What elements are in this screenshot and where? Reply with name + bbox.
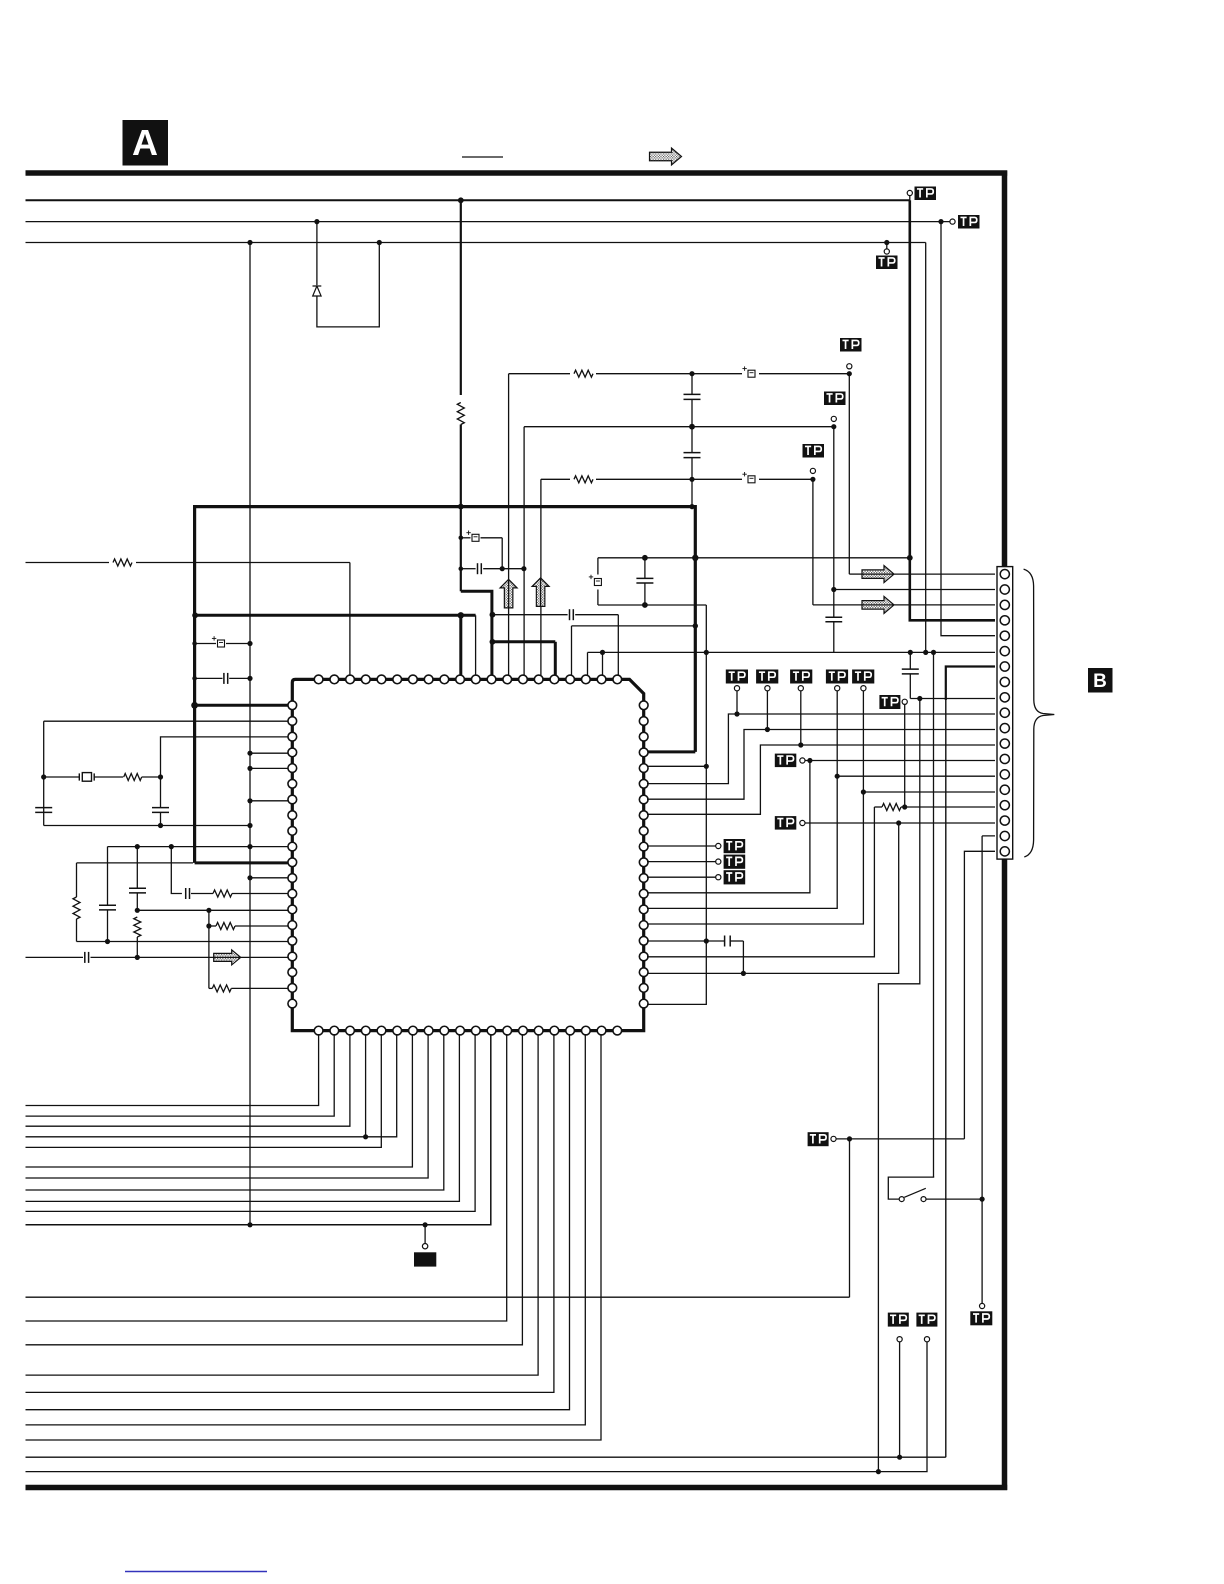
wire input y562 bbox=[26, 562, 350, 564]
wire diode loop bbox=[317, 243, 379, 327]
wire y910 to pin L14 bbox=[137, 909, 289, 911]
wire ground net y1224 bbox=[26, 1034, 491, 1225]
test point TP9 bbox=[902, 699, 907, 704]
wire x982 net bbox=[982, 836, 995, 1199]
wire net y1297 bbox=[26, 1296, 850, 1298]
wire R6 net bbox=[647, 714, 995, 784]
capacitor C18 bbox=[636, 577, 653, 579]
test point TP2 top bbox=[950, 219, 955, 224]
capacitor C9 wire bbox=[195, 677, 222, 679]
junction y557/x909 bbox=[907, 555, 913, 561]
junction y652/x925 bbox=[923, 650, 928, 655]
wire net3 y479 bbox=[541, 478, 813, 480]
power bus box left bbox=[193, 505, 196, 863]
junction x250/y678 bbox=[247, 676, 252, 681]
crystal X1 bbox=[79, 773, 94, 782]
capacitor C10 wire bbox=[160, 777, 162, 808]
label TP row 4 bbox=[826, 670, 848, 684]
wire net1 drop x508 bbox=[508, 374, 510, 676]
junction x250/L12 bbox=[247, 875, 252, 880]
wire TP11 net bbox=[836, 1138, 964, 1140]
wire pin T17 net bbox=[572, 626, 696, 676]
wire y242 bbox=[26, 242, 926, 244]
junction B4 bbox=[363, 1134, 368, 1139]
resistor R9 bbox=[216, 923, 235, 930]
wire bus jog bbox=[461, 591, 492, 676]
wire cap910 bbox=[909, 652, 911, 669]
resistor R10 bbox=[212, 985, 231, 992]
capacitor C10 bbox=[152, 807, 169, 809]
wire through arrow up 1 bbox=[508, 581, 510, 609]
junction y652/x910 bbox=[908, 650, 913, 655]
polarized capacitor C3 bbox=[742, 368, 759, 379]
test point TP13 bbox=[897, 1337, 902, 1342]
label TP6 bbox=[803, 444, 825, 458]
wire pin L12 stub bbox=[250, 877, 289, 879]
junction x160/y777 bbox=[158, 774, 163, 779]
label TP9 bbox=[879, 695, 900, 709]
wire arrow1 to pin bbox=[849, 573, 864, 575]
wire TP4 net to connector bbox=[848, 374, 850, 574]
IC U1 top pins bbox=[314, 675, 621, 684]
wire C19 drop bbox=[742, 941, 744, 973]
junction x160/y825 bbox=[158, 823, 163, 828]
wire bottom pin stair 13 bbox=[26, 1034, 507, 1321]
wire bottom pin stair 18 bbox=[26, 1034, 586, 1425]
resistor R5 bbox=[124, 774, 142, 781]
label TP8 bbox=[775, 816, 797, 830]
wire x964 net bbox=[964, 851, 995, 1139]
signal arrow right 1 bbox=[862, 566, 894, 583]
capacitor C15 bbox=[84, 952, 86, 963]
border frame right bbox=[1002, 171, 1008, 1491]
capacitor C12 bbox=[99, 904, 116, 906]
junction x250/y1224 bbox=[247, 1222, 252, 1227]
wire y846 to pin L10 bbox=[108, 846, 290, 848]
label TP7 bbox=[775, 754, 797, 768]
junction boxR/y625 bbox=[693, 623, 698, 628]
wire x849 drop bbox=[849, 1139, 851, 1297]
diode D1 bbox=[313, 286, 322, 296]
svg-text:B: B bbox=[1093, 671, 1107, 692]
wire x137 tail bbox=[136, 937, 138, 957]
reference line blue bbox=[125, 1571, 267, 1573]
wire pin R5 bbox=[647, 765, 706, 767]
label TP16 bbox=[724, 870, 746, 884]
test point TP11 bbox=[831, 1136, 836, 1141]
test point TP6 bbox=[810, 468, 815, 473]
polarized capacitor C1 bbox=[466, 531, 479, 542]
wire TP5 net drop bbox=[833, 427, 835, 590]
wire bottom pin stair 14 bbox=[26, 1034, 523, 1345]
wire R8 net bbox=[647, 745, 995, 814]
wire pin R12 to TP bbox=[647, 876, 716, 878]
wire R17 net bbox=[647, 807, 874, 957]
wire bottom pin fan 1 bbox=[26, 1034, 319, 1106]
junction x250/y643 bbox=[247, 641, 252, 646]
wire net1 y373 bbox=[509, 373, 850, 375]
junction y760/x810 bbox=[807, 758, 812, 763]
junction net3/x813 bbox=[810, 477, 815, 482]
capacitor C11 bbox=[35, 807, 52, 809]
junction net1/x692 bbox=[689, 371, 694, 376]
signal arrow right 3 bbox=[214, 950, 241, 965]
wire through arrow up 2 bbox=[540, 579, 542, 607]
power arrow up 2 bbox=[532, 578, 549, 607]
label TP row 5 bbox=[852, 670, 874, 684]
wire through arrow right 2 bbox=[863, 604, 893, 606]
wire pin T20 drop bbox=[617, 615, 619, 676]
label TP14 bbox=[724, 839, 746, 853]
ground terminal circle bbox=[422, 1244, 427, 1249]
junction y200/x461 bbox=[458, 197, 464, 203]
capacitor C2 bbox=[477, 563, 479, 574]
junction y652/T19 bbox=[600, 650, 605, 655]
junction x208/y926 bbox=[206, 923, 211, 928]
wire net2 drop x524 bbox=[523, 427, 525, 676]
wire loop bottom bbox=[598, 604, 706, 606]
junction x137/y957 bbox=[135, 955, 140, 960]
wire net y1457 bbox=[26, 1456, 946, 1458]
wire bus x461 lower bbox=[460, 425, 462, 592]
test point TP4 bbox=[847, 364, 852, 369]
junction TP11 bbox=[847, 1136, 852, 1141]
junction y745/TP bbox=[798, 742, 803, 747]
wire diode drop bbox=[316, 222, 318, 285]
junction x706/R16 bbox=[704, 938, 709, 943]
wire thick y641 branch bbox=[492, 640, 555, 643]
junction x692/boxtop bbox=[689, 504, 694, 509]
wire pin L11 thick bbox=[195, 861, 289, 864]
wire bottom pin fan 8 bbox=[26, 1034, 444, 1190]
wire y926 to pin L15 bbox=[209, 925, 216, 927]
wire net2 y426 bbox=[524, 426, 834, 428]
wire c14-r8 bbox=[191, 893, 213, 895]
test point TP row 2 bbox=[765, 686, 770, 691]
wire cap drop x107 bbox=[107, 847, 109, 906]
junction x878/y1471 bbox=[876, 1469, 881, 1474]
wire TP6 net drop bbox=[812, 479, 814, 605]
test point TP row 5 bbox=[861, 686, 866, 691]
power bus box right bbox=[694, 505, 697, 752]
capacitor C13 bbox=[129, 887, 146, 889]
junction x834/y589 bbox=[831, 587, 836, 592]
wire through arrow right 1 bbox=[863, 573, 893, 575]
junction x492/y614 bbox=[490, 612, 496, 618]
junction y729/TP bbox=[765, 727, 770, 732]
resistor R1 on x461 bbox=[457, 403, 464, 425]
label TP10 bbox=[970, 1311, 992, 1325]
wire x941 net bbox=[941, 222, 995, 636]
junction y1457 bbox=[897, 1455, 902, 1460]
power bus box top bbox=[195, 505, 696, 508]
junction x706/y652 bbox=[704, 650, 709, 655]
junction x137/y910 bbox=[135, 908, 140, 913]
wire through arrow right 3 bbox=[214, 956, 240, 958]
junction y792/x863 bbox=[861, 789, 866, 794]
capacitor C19 bbox=[724, 936, 726, 947]
wire pin7 drop bbox=[945, 700, 947, 1457]
wire R18 net bbox=[647, 823, 899, 973]
wire pin T11 drop bbox=[475, 615, 477, 676]
junction y221/diode bbox=[314, 219, 319, 224]
capacitor C16 wire y614 bbox=[492, 614, 567, 616]
label TP11 bbox=[808, 1132, 829, 1146]
wire loop left bbox=[597, 558, 599, 575]
wire TP9 drop bbox=[904, 704, 906, 807]
wire R16 net bbox=[647, 940, 725, 942]
wire bottom pin fan 10 bbox=[26, 1034, 476, 1211]
wire loop top y557 bbox=[598, 557, 910, 559]
IC U1 left pins bbox=[288, 701, 297, 1008]
wire bottom pin fan 5 bbox=[26, 1034, 382, 1147]
capacitor C6 bbox=[684, 452, 701, 454]
wire pin17 feed bbox=[805, 822, 995, 824]
label TP row 2 bbox=[756, 670, 778, 684]
wire pin T16 drop bbox=[554, 642, 557, 676]
resistor R2 on net1 bbox=[570, 368, 596, 379]
wire pin L2 bbox=[44, 720, 289, 722]
wire bottom pin fan 9 bbox=[26, 1034, 460, 1201]
test point TP8 bbox=[800, 820, 805, 825]
wire x208 drop bbox=[208, 910, 210, 988]
junction net2/x692 bbox=[689, 424, 695, 430]
junction x250/L7 bbox=[247, 798, 252, 803]
wire x171 drop bbox=[171, 847, 182, 894]
section label B bbox=[1088, 668, 1113, 693]
switch SW1 right wire bbox=[926, 1198, 982, 1200]
power arrow up 1 bbox=[500, 579, 517, 608]
junction y714/TP bbox=[734, 711, 739, 716]
wire VDD top y200 bbox=[26, 199, 910, 201]
label TP12 bbox=[916, 1313, 937, 1327]
junction x461/y568 bbox=[459, 566, 464, 571]
wire x919 jog bbox=[878, 699, 919, 1472]
wire x834 cap drop bbox=[833, 590, 835, 618]
wire bottom pin fan 2 bbox=[26, 1034, 335, 1116]
wire thick pin7 elbow bbox=[946, 667, 995, 701]
wire thick x909 bbox=[910, 200, 995, 620]
resistor R4 bbox=[109, 557, 136, 568]
wire crystal left bbox=[43, 721, 45, 825]
wire res drop x76 bbox=[76, 863, 78, 897]
IC U1 body bbox=[292, 679, 643, 1030]
label TP row 3 bbox=[790, 670, 812, 684]
ground symbol bbox=[414, 1252, 436, 1266]
junction y615/x461 bbox=[458, 612, 464, 618]
wire TProw3 drop bbox=[800, 691, 802, 745]
wire R15 net bbox=[647, 691, 863, 924]
resistor R11 bbox=[882, 804, 901, 811]
wire y221 bbox=[26, 221, 950, 223]
wire net3 drop x541 bbox=[540, 479, 542, 676]
junction x250/y825 bbox=[247, 823, 252, 828]
wire bus x461 upper bbox=[460, 200, 462, 395]
wire y941 to pin L16 bbox=[77, 941, 290, 943]
junction y221/x941 bbox=[938, 219, 943, 224]
junction y568/x502 bbox=[500, 566, 505, 571]
connector CN1 pins bbox=[1000, 570, 1009, 856]
junction y776/x837 bbox=[835, 774, 840, 779]
wire pin L3 riser bbox=[161, 737, 290, 777]
connector CN1 body bbox=[997, 567, 1013, 860]
wire xtal to x160 bbox=[142, 776, 161, 778]
wire bottom pin stair 15 bbox=[26, 1034, 539, 1375]
wire net x250 bbox=[249, 243, 251, 1225]
wire y988 to pin L19 bbox=[209, 987, 212, 989]
test point TP3 stub bbox=[886, 243, 888, 250]
wire TProw2 drop bbox=[766, 691, 768, 730]
border frame bottom bbox=[26, 1485, 1008, 1491]
resistor R6 bbox=[73, 897, 80, 919]
wire bottom pin stair 17 bbox=[26, 1034, 570, 1410]
test point TP1 top bbox=[907, 190, 912, 195]
polarized capacitor C1 wire bbox=[461, 537, 471, 539]
wire pin R4 thick bbox=[647, 750, 695, 753]
IC U1 pin R20 bbox=[639, 999, 648, 1008]
wire y957 input bbox=[26, 956, 84, 958]
blank label line bbox=[462, 156, 503, 158]
junction xtal left bbox=[41, 774, 46, 779]
wire thick y615 bbox=[195, 614, 476, 617]
label TP2 bbox=[958, 215, 980, 229]
wire TProw1 drop bbox=[736, 691, 738, 714]
resistor R8 bbox=[213, 890, 232, 897]
brace B bbox=[1024, 569, 1055, 857]
wire R7 net bbox=[647, 730, 995, 800]
capacitor C14 bbox=[185, 888, 187, 899]
wire pin14 feed bbox=[837, 775, 995, 777]
switch SW1 upper wire bbox=[888, 1177, 934, 1199]
label TP5 bbox=[824, 392, 846, 406]
capacitor C9 bbox=[223, 673, 225, 684]
test point TP14 bbox=[716, 843, 721, 848]
svg-text:A: A bbox=[132, 122, 158, 163]
capacitor C5 bbox=[684, 393, 701, 395]
wire pin L4 stub bbox=[250, 752, 289, 754]
wire pin15 feed bbox=[863, 791, 995, 793]
wire to pin L13 bbox=[232, 893, 289, 895]
wire bottom pin fan 7 bbox=[26, 1034, 429, 1178]
polarized capacitor C8 wire bbox=[195, 643, 216, 645]
wire pin13 feed bbox=[805, 760, 995, 762]
label TP4 bbox=[840, 338, 862, 352]
switch SW1 blade bbox=[904, 1188, 926, 1197]
junction x461/boxtop bbox=[458, 504, 464, 510]
junction y846/x137 bbox=[135, 844, 140, 849]
crystal X1 wire bbox=[44, 776, 80, 778]
wire x982 TP drop bbox=[981, 1199, 983, 1303]
wire x933 drop bbox=[933, 652, 935, 1177]
junction x461/y537 bbox=[459, 536, 464, 541]
junction y823/x898 bbox=[896, 820, 901, 825]
wire bottom pin fan 3 bbox=[26, 1034, 350, 1126]
wire pin L1 thick bbox=[195, 704, 289, 707]
signal arrow right 2 bbox=[862, 596, 894, 613]
junction box/y678 bbox=[192, 676, 197, 681]
junction x982/switch bbox=[980, 1197, 985, 1202]
label TP13 bbox=[888, 1313, 909, 1327]
junction y615/box bbox=[192, 612, 198, 618]
junction box/pinL1 bbox=[191, 702, 198, 709]
wire arrow2 to pin bbox=[813, 604, 864, 606]
junction y846/x171 bbox=[169, 844, 174, 849]
test point TP row 3 bbox=[798, 686, 803, 691]
wire bottom pin fan 4 bbox=[26, 1034, 397, 1137]
wire pin B4 drop bbox=[365, 1034, 367, 1137]
junction y568/x524 bbox=[521, 566, 526, 571]
wire pin T18 drop bbox=[587, 652, 589, 676]
junction x492/y641 bbox=[490, 639, 496, 645]
border frame top bbox=[26, 170, 1008, 176]
test point TP5 bbox=[831, 416, 836, 421]
wire pin2 feed bbox=[834, 589, 995, 591]
test point TP row 1 bbox=[734, 686, 739, 691]
test point TP7 bbox=[800, 758, 805, 763]
test point TP12 bbox=[924, 1337, 929, 1342]
junction y973/x744 bbox=[741, 971, 746, 976]
junction y807/x904 bbox=[902, 804, 907, 809]
signal arrow top bbox=[650, 148, 682, 165]
IC U1 right pins bbox=[639, 701, 648, 992]
test point TP row 4 bbox=[835, 686, 840, 691]
junction x706/R5 bbox=[704, 764, 709, 769]
wire pin L5 stub bbox=[250, 767, 289, 769]
capacitor C18 wire bbox=[644, 558, 646, 579]
capacitor C2 wire y568 bbox=[461, 568, 476, 570]
junction y242/x250 bbox=[247, 240, 252, 245]
section label A bbox=[123, 120, 169, 166]
wire resnet bbox=[874, 806, 882, 808]
polarized capacitor C17 bbox=[589, 575, 602, 586]
junction box/y643 bbox=[192, 641, 197, 646]
wire pin T3 drop bbox=[349, 563, 351, 677]
junction net2/x834 bbox=[831, 424, 836, 429]
wire TP13 drop bbox=[899, 1342, 901, 1457]
junction y910/x208 bbox=[206, 908, 211, 913]
wire bottom pin fan 6 bbox=[26, 1034, 413, 1167]
wire bottom pin stair 19 bbox=[26, 1034, 602, 1440]
wire R14 net bbox=[647, 691, 837, 909]
resistor R7 bbox=[134, 917, 141, 937]
test point TP16 bbox=[716, 875, 721, 880]
wire pin R10 to TP bbox=[647, 845, 716, 847]
junction boxR/y557 bbox=[692, 555, 698, 561]
wire R13 net bbox=[647, 761, 810, 893]
wire cap-res x137 bbox=[136, 847, 138, 889]
junction y605/x644 bbox=[642, 602, 648, 608]
wire gnd stub bbox=[424, 1225, 426, 1244]
test point TP15 bbox=[716, 859, 721, 864]
junction y652/x933 bbox=[931, 650, 936, 655]
wire x925 drop bbox=[925, 243, 927, 653]
capacitor C20 bbox=[902, 668, 919, 670]
junction y698/x919 bbox=[917, 696, 922, 701]
wire pin T19 drop bbox=[602, 652, 604, 676]
polarized capacitor C8 bbox=[212, 636, 225, 647]
junction x250/L4 bbox=[247, 751, 252, 756]
polarized capacitor C4 bbox=[742, 474, 759, 485]
junction x250/y846 bbox=[247, 844, 252, 849]
wire pin T10 drop thick bbox=[459, 615, 462, 676]
IC U1 bottom pins bbox=[314, 1026, 621, 1035]
wire x706 long bbox=[647, 605, 706, 1004]
junction gnd/x425 bbox=[423, 1222, 428, 1227]
switch SW1 contacts bbox=[899, 1197, 904, 1202]
junction y557/x644 bbox=[642, 555, 648, 561]
wire pin L7 stub bbox=[250, 800, 289, 802]
wire net y1471 bbox=[26, 1342, 928, 1472]
